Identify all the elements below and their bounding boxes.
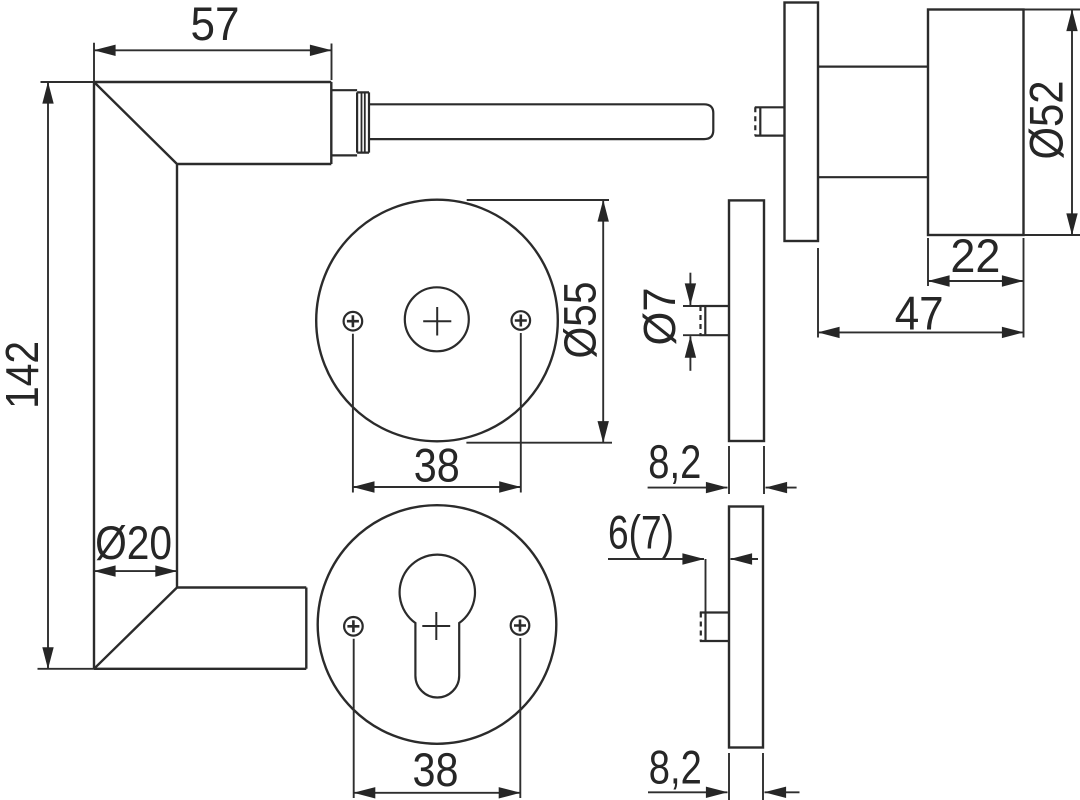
svg-text:22: 22 bbox=[950, 229, 1000, 282]
svg-text:38: 38 bbox=[413, 743, 459, 796]
svg-text:6(7): 6(7) bbox=[608, 506, 674, 559]
svg-text:8,2: 8,2 bbox=[649, 741, 702, 794]
svg-text:Ø55: Ø55 bbox=[555, 282, 606, 359]
svg-text:Ø7: Ø7 bbox=[634, 288, 685, 346]
svg-text:Ø52: Ø52 bbox=[1020, 81, 1073, 160]
svg-text:47: 47 bbox=[895, 286, 944, 339]
svg-text:57: 57 bbox=[191, 0, 240, 50]
svg-text:38: 38 bbox=[414, 438, 460, 491]
svg-text:142: 142 bbox=[0, 341, 48, 409]
svg-text:Ø20: Ø20 bbox=[95, 516, 172, 569]
svg-text:8,2: 8,2 bbox=[648, 435, 701, 488]
